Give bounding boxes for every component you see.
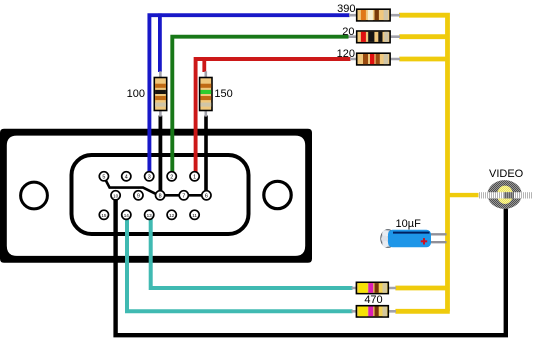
svg-text:5: 5 — [102, 174, 105, 180]
mounting hole left — [21, 182, 48, 209]
resistor R470 lower leads — [352, 310, 397, 313]
wire red net: pin1 up and right to R 120 — [196, 59, 351, 176]
wire yellow from upper 470 — [395, 286, 447, 291]
svg-text:7: 7 — [182, 193, 185, 199]
svg-text:8: 8 — [159, 193, 162, 199]
pin 11 — [190, 210, 199, 219]
svg-text:14: 14 — [124, 213, 130, 218]
lead resistor 100 bottom black to pin 8 — [158, 116, 162, 194]
wire yellow from R120 — [399, 57, 447, 62]
resistor R470 upper leads — [352, 287, 397, 290]
lead resistor 150 bottom black to pin 6 — [204, 116, 208, 194]
svg-text:120: 120 — [337, 48, 355, 60]
wire cyan pin14 down and right to lower 470 — [127, 215, 353, 311]
wire green net: pin2 up and right to R 20 — [172, 37, 348, 176]
resistor R120 leads — [350, 58, 400, 61]
wire blue net: pin3 up and right to R 390 — [149, 15, 349, 176]
pin 1 — [190, 172, 199, 181]
VGA D-shell inner outline — [72, 155, 249, 234]
resistor R120 body — [357, 53, 390, 65]
svg-text:6: 6 — [205, 193, 208, 199]
wire yellow from lower 470 — [395, 309, 449, 314]
pin 14 — [122, 210, 131, 219]
svg-text:11: 11 — [192, 213, 197, 218]
wire yellow bus vertical with top elbow from R390 — [399, 15, 448, 311]
svg-text:390: 390 — [337, 3, 355, 15]
resistor R100 lead vertical — [159, 71, 162, 116]
wire yellow to video jack — [448, 193, 480, 197]
pin 12 — [167, 210, 176, 219]
resistor R470 upper body — [356, 282, 388, 293]
svg-text:1: 1 — [193, 174, 196, 180]
svg-text:20: 20 — [342, 26, 354, 38]
resistor R150 lead vertical — [205, 71, 208, 116]
pin 2 — [167, 172, 176, 181]
pin 13 — [145, 210, 154, 219]
wire ground bus pins 8-7-6 — [160, 194, 206, 197]
pin 10 — [111, 191, 120, 200]
svg-text:12: 12 — [169, 213, 175, 218]
svg-text:470: 470 — [364, 294, 382, 306]
svg-text:15: 15 — [101, 213, 107, 218]
pin 9 — [134, 191, 143, 200]
capacitor C1 leads — [428, 233, 447, 235]
VGA connector shell outline — [0, 129, 312, 263]
svg-text:9: 9 — [137, 193, 140, 199]
svg-text:150: 150 — [214, 88, 232, 100]
wire blue stub down to resistor 100 — [158, 13, 162, 72]
pin 8 — [156, 191, 165, 200]
video jack barrel circle — [487, 180, 521, 209]
resistor R470 lower body — [356, 306, 388, 317]
pin 4 — [122, 172, 131, 181]
mounting hole right — [264, 181, 291, 208]
pin 7 — [179, 191, 188, 200]
svg-text:3: 3 — [148, 174, 151, 180]
resistor R390 leads — [349, 14, 400, 17]
svg-text:2: 2 — [170, 174, 173, 180]
resistor R390 body — [357, 9, 390, 21]
resistor R100 body — [154, 78, 166, 111]
svg-text:100: 100 — [127, 88, 145, 100]
resistor R20 leads — [349, 35, 401, 38]
wire cyan pin13 to lower-left then right to upper 470 — [151, 215, 353, 288]
pin 15 — [99, 210, 108, 219]
capacitor C1 10uF body — [381, 230, 431, 248]
svg-text:VIDEO: VIDEO — [489, 168, 524, 180]
wire black ground: pin10 down, along bottom, up to video jack — [116, 196, 506, 335]
resistor R150 body — [200, 78, 212, 111]
video jack center yellow — [497, 186, 513, 204]
wire red stub down to resistor 150 — [202, 57, 206, 72]
pin 3 — [145, 172, 154, 181]
svg-text:13: 13 — [147, 213, 153, 218]
svg-text:10: 10 — [113, 193, 119, 198]
pin 5 — [99, 172, 108, 181]
svg-text:4: 4 — [125, 174, 128, 180]
svg-text:10µF: 10µF — [396, 218, 422, 230]
resistor R20 body — [357, 31, 390, 43]
video jack center pin shadow — [504, 192, 514, 198]
pin 6 — [202, 191, 211, 200]
video jack shaft bar — [479, 192, 534, 198]
wire ground bus pin5 to pin8 — [104, 177, 157, 195]
wire yellow from R20 — [399, 34, 447, 39]
